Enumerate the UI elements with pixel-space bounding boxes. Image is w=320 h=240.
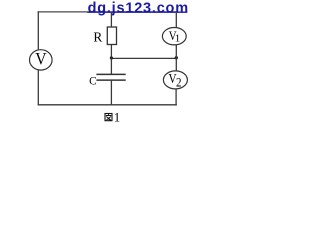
svg-text:R: R	[93, 30, 102, 45]
svg-text:1: 1	[175, 33, 181, 45]
wire top horizontal	[38, 11, 177, 13]
label C	[89, 75, 97, 87]
voltmeter V1	[162, 28, 186, 45]
wire middle horizontal	[111, 57, 176, 59]
wire V2 bottom	[175, 89, 177, 105]
wire left vertical upper	[37, 11, 39, 50]
wire bottom horizontal	[38, 104, 177, 106]
wire resistor branch top	[110, 12, 112, 28]
wire capacitor branch upper	[110, 58, 112, 74]
capacitor C	[96, 74, 125, 80]
svg-text:dg.js123.com: dg.js123.com	[88, 1, 189, 17]
wire left vertical lower	[37, 70, 39, 106]
watermark underline over top wire	[87, 11, 187, 13]
wire V1 bottom to node	[175, 45, 177, 59]
watermark text dg.js123.com	[88, 1, 189, 17]
voltmeter V2	[163, 71, 187, 90]
svg-text:V: V	[35, 48, 46, 68]
svg-text:C: C	[89, 75, 97, 87]
svg-text:2: 2	[176, 75, 182, 90]
voltmeter V	[30, 48, 53, 70]
node junction right (V1/V2)	[175, 56, 178, 59]
svg-text:1: 1	[114, 110, 120, 124]
resistor R	[107, 27, 116, 45]
label R	[93, 30, 102, 45]
wire V1 branch top	[175, 12, 177, 28]
caption 图1	[105, 110, 120, 124]
wire V2 branch top	[175, 58, 177, 72]
node junction left (R/C)	[110, 56, 113, 59]
wire capacitor branch lower	[110, 80, 112, 105]
wire resistor bottom to middle node	[110, 45, 112, 59]
